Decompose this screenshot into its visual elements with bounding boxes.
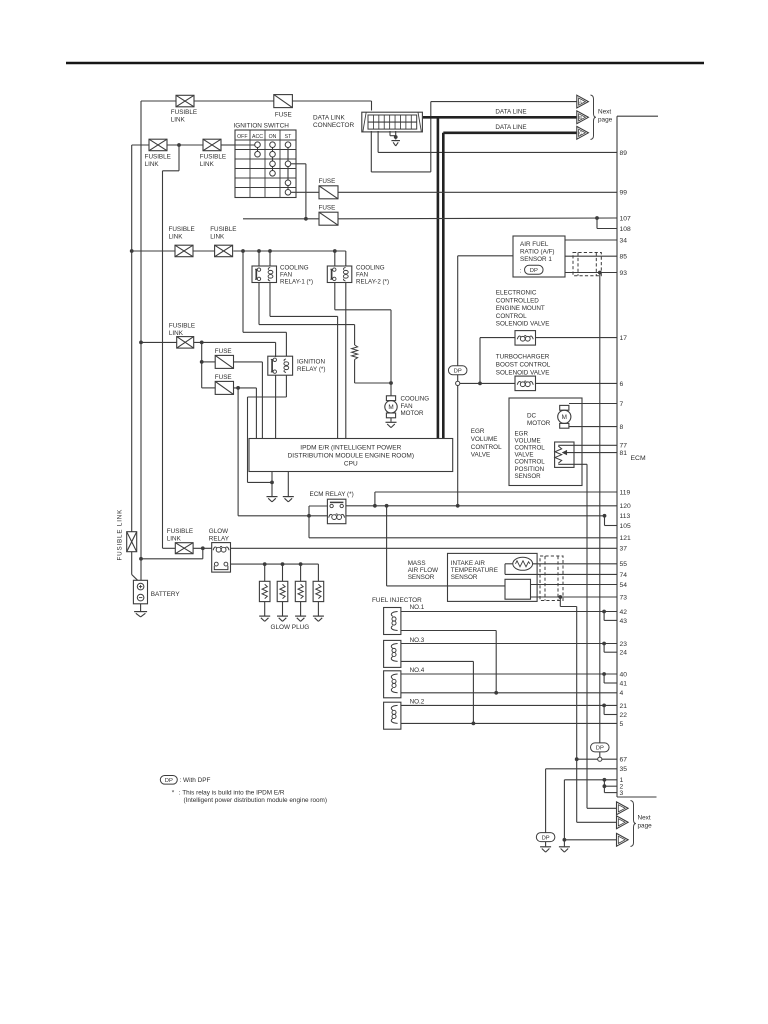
cooling fan relay-2 — [327, 266, 352, 283]
svg-text:EGR: EGR — [515, 430, 529, 437]
svg-text:SENSOR 1: SENSOR 1 — [520, 256, 552, 263]
svg-text:ST: ST — [285, 134, 292, 140]
svg-text:DATA LINK: DATA LINK — [313, 115, 345, 122]
wire injector no3 return — [401, 660, 474, 662]
svg-text:LINK: LINK — [145, 161, 160, 168]
wire ground chain 2 — [563, 780, 565, 847]
wire ON-row to fuse2 — [243, 218, 319, 220]
junction MAF ground tap — [558, 595, 562, 599]
fusible link row5 — [175, 543, 193, 554]
glow plug x282.5 — [277, 581, 288, 601]
next page arrow A — [577, 95, 589, 108]
svg-text:RELAY-1 (*): RELAY-1 (*) — [280, 279, 313, 286]
wire to solenoid1 — [479, 338, 481, 384]
svg-text:LINK: LINK — [169, 233, 184, 240]
junction fuse3 feed — [200, 360, 204, 364]
ground data link connector — [391, 141, 400, 146]
junction row2 — [177, 143, 181, 147]
connector circle 67 — [598, 757, 602, 761]
svg-text:SENSOR: SENSOR — [451, 574, 478, 581]
wire data link connector ground — [389, 131, 391, 136]
junction arrow3 tap — [563, 838, 567, 842]
junction row3 relay1 contact — [257, 249, 261, 253]
svg-text:DP: DP — [530, 268, 538, 274]
junction battery branch — [139, 557, 143, 561]
svg-text:DP: DP — [596, 746, 604, 752]
junction dlc ground — [394, 135, 398, 139]
svg-text:NO.3: NO.3 — [410, 637, 425, 644]
wire IPDM ground1 — [271, 472, 273, 497]
svg-text:FUSIBLE: FUSIBLE — [171, 109, 197, 116]
svg-text:VOLUME: VOLUME — [515, 437, 541, 444]
wire injector NO.1 top line — [401, 611, 617, 613]
wire row2 to ignition switch — [221, 144, 235, 146]
svg-text:ELECTRONIC: ELECTRONIC — [496, 290, 537, 297]
svg-text:OFF: OFF — [237, 134, 247, 140]
fusible link row2 right — [203, 139, 221, 151]
svg-text:74: 74 — [620, 572, 628, 579]
svg-text:SENSOR: SENSOR — [515, 473, 542, 480]
svg-text:INTAKE AIR: INTAKE AIR — [451, 560, 486, 567]
wire ignition switch row1 internal — [235, 144, 255, 146]
junction row3 x243 — [241, 249, 245, 253]
svg-text:LINK: LINK — [210, 233, 225, 240]
svg-text:7: 7 — [620, 401, 624, 408]
svg-text:DP: DP — [454, 369, 462, 375]
svg-text:120: 120 — [620, 503, 631, 510]
wire A/F pin85 — [565, 255, 617, 257]
svg-text:FAN: FAN — [280, 271, 292, 278]
ground IPDM 2 — [283, 497, 294, 502]
wire ignition switch ON output — [291, 163, 306, 165]
wire motor pin 8 — [569, 426, 617, 428]
svg-text:ENGINE MOUNT: ENGINE MOUNT — [496, 305, 545, 312]
ground glow plug x318.4 — [313, 616, 324, 621]
svg-text:40: 40 — [620, 671, 628, 678]
wire relay2 contact to motor — [334, 283, 336, 310]
air fuel ratio sensor box — [513, 236, 565, 277]
svg-text:DP: DP — [165, 778, 173, 784]
solenoid valve engine mount — [515, 331, 536, 346]
junction glow feed — [201, 546, 205, 550]
wire row2 start corner — [132, 144, 149, 146]
svg-text:93: 93 — [620, 270, 628, 277]
wire DP2 to ground — [545, 842, 547, 847]
wire glow plug stem x264.7 — [264, 564, 266, 581]
svg-text:6: 6 — [620, 381, 624, 388]
wire row4 fusible link — [141, 341, 177, 343]
solenoid valve turbo boost — [515, 376, 536, 391]
wire glow plug stem x300.6 — [300, 564, 302, 581]
svg-text:Next: Next — [638, 815, 651, 822]
wire relay1 stems — [258, 251, 260, 266]
wire 93 DP vertical long — [599, 273, 601, 743]
wire MAF ground chain to arrow2 — [559, 597, 561, 607]
svg-text:DATA LINE: DATA LINE — [495, 124, 526, 131]
junction row3 relay2 contact — [333, 249, 337, 253]
svg-text:119: 119 — [620, 489, 631, 496]
svg-text:(Intelligent power distributio: (Intelligent power distribution module e… — [184, 797, 328, 804]
svg-text:FUSIBLE: FUSIBLE — [167, 528, 193, 535]
svg-text:CONTROL: CONTROL — [515, 459, 546, 466]
fusible link row2 left — [149, 139, 167, 151]
next page arrow E — [617, 816, 629, 829]
wire MAF feed — [386, 506, 388, 586]
svg-text:VALVE: VALVE — [515, 452, 534, 459]
junction fuse4 split — [236, 386, 240, 390]
junction 119 tap — [373, 504, 377, 508]
svg-text:22: 22 — [620, 712, 628, 719]
wire row4 to ignition relay contact — [194, 341, 276, 343]
wire solenoid feed — [460, 382, 515, 384]
wire injector NO.2 top line — [401, 704, 617, 706]
wire fuse4 out — [234, 387, 257, 389]
fuel injector NO.3 — [384, 640, 401, 667]
wire injector NO.3 top line — [401, 643, 617, 645]
junction DP line tap — [456, 504, 460, 508]
fusible link row4 — [177, 337, 194, 349]
wire battery branch to glow feed — [141, 558, 203, 560]
fuse mid2 — [319, 212, 338, 225]
wire fuse4 right branch to IPDM — [255, 388, 257, 439]
wire motor to ground — [390, 418, 392, 422]
svg-text:: With DPF: : With DPF — [180, 777, 211, 784]
svg-text:FUSIBLE: FUSIBLE — [169, 226, 195, 233]
fuel injector NO.1 — [384, 608, 401, 635]
fusible link top row — [176, 95, 194, 107]
next page arrow C — [577, 126, 589, 139]
svg-text:A: A — [579, 99, 582, 104]
ignition relay — [268, 356, 293, 375]
svg-text:LINK: LINK — [171, 117, 186, 124]
svg-text:M: M — [388, 404, 393, 411]
svg-text:BATTERY: BATTERY — [151, 591, 181, 598]
svg-text:FUSIBLE: FUSIBLE — [145, 153, 171, 160]
svg-text:3: 3 — [620, 790, 624, 797]
wire motor pin 7 — [569, 403, 617, 405]
wire motor stem — [390, 383, 392, 396]
svg-text:77: 77 — [620, 443, 628, 450]
ground IPDM 1 — [267, 497, 278, 502]
wire battery direct vertical x141 — [140, 101, 142, 580]
IPDM E/R box — [249, 439, 453, 472]
wire ECM relay contact left to pin 121 — [309, 505, 327, 507]
wire A/F pin93 — [565, 272, 617, 274]
wire fuse2 to pin 107 — [338, 217, 617, 220]
svg-text:55: 55 — [620, 561, 628, 568]
svg-text:FUSIBLE: FUSIBLE — [169, 323, 195, 330]
wire solenoid2 to pin 6 — [536, 382, 618, 384]
svg-text:MASS: MASS — [408, 560, 426, 567]
wire dlc loop to next-page arrow A — [370, 131, 372, 172]
fuse after ST row — [319, 186, 338, 199]
svg-text:FUSIBLE LINK: FUSIBLE LINK — [117, 509, 124, 561]
svg-text:DC: DC — [527, 412, 537, 419]
top horizontal rule — [66, 62, 704, 64]
junction row4 tap — [139, 341, 143, 345]
wire ignition relay coil return — [285, 375, 287, 397]
wire fuse3 to IPDM — [234, 361, 263, 363]
wire glow plug stem x282.5 — [282, 564, 284, 581]
svg-text:MOTOR: MOTOR — [527, 420, 551, 427]
svg-text:LINK: LINK — [169, 330, 184, 337]
ground DP bottom — [540, 847, 551, 852]
svg-text:IPDM E/R (INTELLIGENT POWER: IPDM E/R (INTELLIGENT POWER — [300, 444, 401, 451]
ECM bus vertical line — [616, 116, 618, 797]
wire fusible-v to battery — [131, 552, 133, 575]
svg-text:5: 5 — [620, 721, 624, 728]
fuel injector NO.4 — [384, 671, 401, 698]
wire fuse to pin 99 — [338, 191, 617, 193]
wire injector no1 return — [401, 630, 496, 632]
wire IPDM ground2 — [287, 472, 289, 497]
glow plug x300.6 — [295, 581, 306, 601]
vertical fusible link battery — [127, 532, 137, 552]
svg-text:17: 17 — [620, 335, 628, 342]
thermistor IAT — [513, 557, 533, 570]
dc motor — [558, 405, 571, 428]
next page arrow D — [617, 802, 629, 815]
wire thermistor to pin 55 — [533, 563, 617, 565]
junction 107/108 split — [595, 216, 599, 220]
svg-text:GLOW: GLOW — [209, 528, 228, 535]
wire battery ground — [140, 604, 142, 611]
wire fusible row3 bus — [132, 250, 175, 252]
svg-text:35: 35 — [620, 766, 628, 773]
svg-text:COOLING: COOLING — [280, 264, 309, 271]
wire sensor pin 81 — [566, 452, 618, 454]
svg-text:121: 121 — [620, 535, 631, 542]
ECM relay — [327, 499, 346, 524]
connector circle — [456, 381, 460, 385]
brace next page top — [591, 95, 596, 140]
wire injector NO.4 top line — [401, 673, 617, 675]
fuse top — [274, 95, 293, 108]
MAF element box — [505, 579, 531, 599]
svg-text:BOOST CONTROL: BOOST CONTROL — [496, 362, 551, 369]
wire glow relay contact to plugs — [231, 563, 319, 565]
svg-text:NO.2: NO.2 — [410, 699, 425, 706]
fuse4 — [215, 381, 233, 394]
wire relay2 coil to IPDM — [345, 283, 347, 439]
svg-text:: This relay is build into the: : This relay is build into the IPDM E/R — [179, 789, 285, 796]
svg-text:54: 54 — [620, 582, 628, 589]
ground glow plug x282.5 — [277, 616, 288, 621]
svg-text:FUSE: FUSE — [215, 348, 232, 355]
connector dashed MAF — [540, 556, 563, 601]
wire DP to circle — [599, 752, 601, 757]
svg-text:NO.4: NO.4 — [410, 667, 425, 674]
position sensor wiper arrow — [563, 451, 567, 455]
svg-text:108: 108 — [620, 226, 631, 233]
svg-text:24: 24 — [620, 650, 628, 657]
svg-text:CONNECTOR: CONNECTOR — [313, 122, 354, 129]
wire fuse to data link connector top — [371, 101, 373, 111]
svg-text:GLOW PLUG: GLOW PLUG — [271, 624, 310, 631]
glow plug x264.7 — [259, 581, 270, 601]
wire to fuse3 — [201, 342, 203, 362]
cooling fan motor — [385, 396, 397, 418]
svg-text:CONTROLLED: CONTROLLED — [496, 297, 539, 304]
svg-text:LINK: LINK — [167, 536, 182, 543]
ground glow plug x300.6 — [295, 616, 306, 621]
svg-text:COOLING: COOLING — [356, 264, 385, 271]
wire step to pin 108 — [596, 218, 598, 229]
wire injector no2 return to pin 5 — [401, 722, 617, 724]
junction glow plugs — [263, 562, 267, 566]
bus top corner wire — [617, 115, 658, 117]
next page arrow B — [577, 111, 589, 124]
svg-text:MOTOR: MOTOR — [401, 410, 424, 417]
svg-text:RELAY-2 (*): RELAY-2 (*) — [356, 279, 389, 286]
svg-text:34: 34 — [620, 237, 628, 244]
fusible link row3 right — [215, 245, 233, 257]
wire battery fused vertical x131.7 upper — [131, 145, 133, 532]
junction 113/105 split — [603, 514, 607, 518]
glow plug x318.4 — [313, 581, 324, 601]
svg-text:DP: DP — [542, 835, 550, 841]
wire glow relay coil to pin 37 — [231, 547, 618, 549]
injector pin steps 43/24/41/22 — [602, 610, 606, 614]
wire relay1 contact to resistor — [258, 283, 260, 325]
bus bottom corner wire — [617, 796, 657, 798]
wire row2 mid — [167, 144, 203, 146]
svg-text:ECM: ECM — [631, 455, 646, 462]
svg-text:113: 113 — [620, 513, 631, 520]
svg-text:EGR: EGR — [471, 428, 485, 435]
svg-text:RELAY: RELAY — [209, 536, 230, 543]
svg-text:37: 37 — [620, 546, 628, 553]
svg-text:DISTRIBUTION MODULE ENGINE ROO: DISTRIBUTION MODULE ENGINE ROOM) — [288, 452, 414, 459]
wire battery feed to top fusible link row — [141, 100, 176, 102]
ignition switch table — [235, 130, 296, 198]
svg-text:TURBOCHARGER: TURBOCHARGER — [496, 354, 550, 361]
svg-text:43: 43 — [620, 618, 628, 625]
fuel injector NO.2 — [384, 702, 401, 729]
svg-text:85: 85 — [620, 254, 628, 261]
svg-text:VOLUME: VOLUME — [471, 436, 498, 443]
ECM pin numbers — [620, 150, 631, 797]
junction row3 left — [130, 249, 134, 253]
DP legend oval — [160, 776, 177, 785]
junction no1-no4 return — [494, 691, 498, 695]
svg-text:M: M — [562, 414, 567, 421]
svg-text:Next: Next — [598, 108, 611, 115]
ignition switch contacts — [255, 142, 291, 195]
svg-text:FAN: FAN — [401, 403, 413, 410]
svg-text:107: 107 — [620, 215, 631, 222]
svg-text:FUSE: FUSE — [215, 374, 232, 381]
svg-text:SENSOR: SENSOR — [408, 574, 435, 581]
ground bottom 2 — [559, 847, 570, 852]
svg-text:89: 89 — [620, 150, 628, 157]
position sensor resistor — [555, 446, 562, 463]
svg-text:LINK: LINK — [200, 161, 215, 168]
svg-text:AIR FUEL: AIR FUEL — [520, 241, 549, 248]
wire dlc pin to ECM pin 89 — [377, 131, 379, 152]
wire to fuse4 — [201, 362, 203, 388]
svg-text:IGNITION: IGNITION — [297, 358, 325, 365]
junction fuse2 line — [304, 217, 308, 221]
EGR volume control valve box — [509, 398, 582, 486]
svg-text:POSITION: POSITION — [515, 466, 545, 473]
svg-text:CONTROL: CONTROL — [471, 444, 502, 451]
svg-text:FUSE: FUSE — [275, 111, 292, 118]
svg-text:FAN: FAN — [356, 271, 368, 278]
ground battery — [134, 612, 147, 617]
junction 93 line — [598, 271, 602, 275]
svg-text:ON: ON — [269, 134, 277, 140]
data line C wire thick — [443, 132, 577, 135]
intake air temperature sensor box — [448, 553, 538, 601]
svg-text::: : — [520, 267, 522, 274]
wire fuse4 to ECM relay coil line — [237, 388, 239, 516]
svg-text:8: 8 — [620, 424, 624, 431]
junction 67 line — [575, 757, 579, 761]
wire 67 line — [577, 758, 617, 760]
svg-text:ECM RELAY (*): ECM RELAY (*) — [310, 491, 354, 498]
wire to pin 119 — [374, 492, 376, 506]
wire MAF to pin 73 — [531, 596, 618, 598]
wire to arrow3 — [564, 839, 616, 841]
data line B wire thick — [423, 116, 577, 119]
svg-text:page: page — [598, 116, 613, 123]
junction no3-no2 return — [472, 722, 476, 726]
svg-text:4: 4 — [620, 690, 624, 697]
wire glow plug ground x264.7 — [264, 602, 266, 616]
svg-text:RELAY (*): RELAY (*) — [297, 366, 325, 373]
fusible link row3 left — [175, 245, 193, 257]
brace next page bottom — [631, 801, 636, 847]
wire ignition relay coil feed — [242, 251, 244, 332]
wire A/F pin34 — [565, 239, 617, 241]
wire thermistor to pin 74 — [505, 563, 513, 565]
svg-text:42: 42 — [620, 609, 628, 616]
wire pins 1-2-3 — [564, 779, 617, 781]
wire DP vertical — [457, 256, 459, 366]
svg-text:CONTROL: CONTROL — [496, 313, 527, 320]
cooling fan relay-1 — [252, 266, 277, 283]
svg-text:C: C — [579, 131, 582, 136]
svg-text:DATA LINE: DATA LINE — [495, 109, 526, 116]
wire ECM relay contact right 120 line — [346, 505, 617, 507]
svg-text:page: page — [638, 823, 653, 830]
wire sensor bottom to arrow1 — [558, 463, 587, 465]
svg-text:B: B — [579, 115, 582, 120]
wire step to pin 105 — [604, 516, 606, 526]
svg-text:AIR FLOW: AIR FLOW — [408, 567, 438, 574]
wire solenoid1 to pin 17 — [536, 337, 618, 339]
wire fusible5 to glow relay — [193, 547, 212, 549]
wire glow plug ground x318.4 — [317, 602, 319, 616]
connector dashed A/F — [573, 253, 601, 276]
next page arrow F — [617, 833, 629, 846]
junction IPDM ground — [270, 481, 274, 485]
svg-text:67: 67 — [620, 757, 628, 764]
svg-text:81: 81 — [620, 450, 628, 457]
svg-text:99: 99 — [620, 190, 628, 197]
wire MAF to pin 54 — [531, 584, 618, 586]
wire relay1 coil to IPDM — [269, 283, 271, 317]
wire injector no4 return to pin 4 — [401, 692, 617, 694]
svg-text:CPU: CPU — [344, 460, 358, 467]
glow relay — [212, 543, 231, 573]
wire relay2 stems — [334, 251, 336, 266]
junction solenoid1 feed — [478, 382, 482, 386]
wire stepped vertical from row2 junction — [178, 145, 180, 171]
DP oval mid — [448, 366, 467, 375]
wire sensor pin 77 — [558, 444, 617, 446]
